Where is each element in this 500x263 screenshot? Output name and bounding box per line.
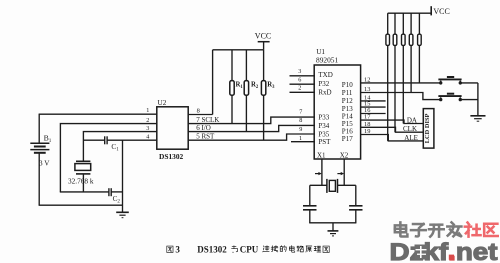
svg-text:VCC: VCC xyxy=(433,7,449,16)
svg-text:7: 7 xyxy=(299,109,302,116)
U2 pin 2 number xyxy=(146,117,149,124)
svg-text:P17: P17 xyxy=(342,135,353,143)
CPU serial stub P32 pin 6 xyxy=(290,77,316,85)
svg-text:DS1302: DS1302 xyxy=(159,152,184,161)
ground G2 xyxy=(470,116,485,121)
watermark hanzi 发-pos3 xyxy=(447,222,461,236)
CPU pin 17 number xyxy=(364,114,371,121)
wire pin16 stub xyxy=(361,113,386,115)
ground G1 xyxy=(116,212,129,217)
svg-text:3: 3 xyxy=(146,125,149,132)
capacitor C2 label xyxy=(113,195,121,205)
wire P11 pin13 to switch S2 xyxy=(361,93,441,100)
U2 pin 8 number xyxy=(197,108,200,115)
svg-text:P33: P33 xyxy=(318,114,329,122)
caption hanzi 6 xyxy=(314,246,321,252)
svg-text:X1: X1 xyxy=(317,152,326,160)
svg-text:9: 9 xyxy=(299,126,302,133)
resistor R2 label xyxy=(251,81,259,90)
caption hanzi 4 xyxy=(297,246,304,252)
net label DA xyxy=(407,116,417,124)
svg-text:LCD DISP: LCD DISP xyxy=(424,113,431,143)
wire caps to ground rail xyxy=(309,210,356,223)
wire I/O U2 pin6 to CPU P34 xyxy=(188,125,315,131)
IC U1 892051 body xyxy=(314,65,360,159)
svg-text:CLK: CLK xyxy=(403,125,417,133)
U2 pin 3 number xyxy=(146,125,149,132)
pull-up resistor RP1 xyxy=(386,13,390,141)
svg-text:TXD: TXD xyxy=(318,71,332,79)
U1 label P32 xyxy=(318,80,329,88)
crystal X1-X2 xyxy=(327,179,338,193)
caption hanzi yu(with) xyxy=(232,246,238,252)
svg-text:5 RST: 5 RST xyxy=(196,132,215,140)
VCC supply symbol center xyxy=(255,31,271,49)
svg-text:U2: U2 xyxy=(158,99,167,107)
caption figure number 3 xyxy=(175,245,180,255)
svg-text:P35: P35 xyxy=(318,130,329,138)
U2 pin 1 number xyxy=(146,107,149,114)
wire P10 pin12 to switch S1 xyxy=(361,82,441,84)
watermark hanzi 电-pos0 xyxy=(395,222,408,236)
pull-up resistor RP5 xyxy=(418,13,422,83)
U1 label P10 xyxy=(342,81,353,89)
pull-up resistor RP2 xyxy=(393,13,397,132)
IC U1 name 892051 xyxy=(316,56,338,65)
CPU pin 14 number xyxy=(364,94,371,101)
CPU pin 12 number xyxy=(364,76,370,83)
svg-text:892051: 892051 xyxy=(316,56,338,65)
wire SCLK U2 pin7 to CPU P33 xyxy=(188,117,315,124)
crystal Y1 32.768k xyxy=(75,161,91,192)
U2 name DS1302 xyxy=(159,152,184,161)
U1 label P11 xyxy=(342,89,353,97)
switch S1 right lead xyxy=(460,82,478,84)
watermark hanzi 子-pos1 xyxy=(411,224,426,236)
U1 label X1 xyxy=(317,152,326,160)
watermark glitch block xyxy=(415,245,428,260)
U1 label PST xyxy=(318,138,331,146)
U1 label TXD xyxy=(318,71,332,79)
U1 label P13 xyxy=(342,105,353,113)
caption hanzi 2 xyxy=(280,246,286,252)
svg-text:6: 6 xyxy=(298,77,301,84)
svg-text:3: 3 xyxy=(175,245,180,255)
wire U2 pin3 to crystal top xyxy=(83,132,157,162)
capacitor C1 label xyxy=(111,143,119,153)
pull-up resistor RP4 xyxy=(409,13,413,92)
CPU serial stub RxD pin 2 xyxy=(290,85,316,93)
switch ground wire xyxy=(477,83,479,116)
U1 label P34 xyxy=(318,122,329,130)
CPU pin 19 number xyxy=(364,128,370,135)
switch S2 right lead xyxy=(460,99,478,101)
CPU pin 7 number xyxy=(299,109,302,116)
caption hanzi 0 xyxy=(263,246,269,252)
svg-text:6 I/O: 6 I/O xyxy=(196,124,211,132)
svg-text:CPU: CPU xyxy=(240,245,259,255)
svg-text:P12: P12 xyxy=(342,97,353,105)
capacitor CL2 xyxy=(349,206,362,210)
CPU pin 18 number xyxy=(364,121,370,128)
wire DA pin17 to LCD xyxy=(361,120,423,123)
U2 pin 7 SCLK label xyxy=(196,116,219,124)
battery B1 negative wire to ground node xyxy=(39,153,123,205)
U1 label RxD xyxy=(318,88,331,96)
CPU pin 8 number xyxy=(299,117,302,124)
resistor R1 label xyxy=(236,81,244,90)
svg-text:PST: PST xyxy=(318,138,331,146)
svg-text:DA: DA xyxy=(407,116,417,124)
wire crystal right xyxy=(338,185,356,205)
svg-text:P11: P11 xyxy=(342,89,353,97)
svg-text:4: 4 xyxy=(146,133,149,140)
U1 label P17 xyxy=(342,135,353,143)
capacitor C1 on U2 pin4 line xyxy=(83,136,157,144)
battery B1 positive wire to U2 pin 1 xyxy=(39,114,157,143)
svg-text:32.768 k: 32.768 k xyxy=(68,177,94,186)
resistor R2 xyxy=(244,50,248,132)
svg-text:RxD: RxD xyxy=(318,88,331,96)
switch S1 xyxy=(438,77,462,85)
svg-text:1: 1 xyxy=(146,107,149,114)
switch S2 xyxy=(438,94,462,102)
battery B1 xyxy=(30,143,49,153)
crystal value 32.768 k xyxy=(68,177,94,186)
op-amp U2 designator xyxy=(158,99,167,107)
svg-text:P10: P10 xyxy=(342,81,353,89)
pull-up VCC rail xyxy=(388,12,432,14)
caption hanzi 3 xyxy=(289,246,294,253)
U2 pin 8 wire to VCC rail xyxy=(188,50,212,115)
CPU pin 13 number xyxy=(364,86,370,93)
svg-text:7 SCLK: 7 SCLK xyxy=(196,116,219,124)
LCD DISP rotated label xyxy=(424,113,431,143)
U1 label P15 xyxy=(342,120,353,128)
capacitor C2 xyxy=(109,188,123,196)
CPU pin 16 number xyxy=(364,107,370,114)
caption hanzi tu(figure) xyxy=(167,246,173,252)
svg-text:P34: P34 xyxy=(318,122,329,130)
watermark hanzi red 区 xyxy=(484,224,498,236)
net label ALE xyxy=(404,134,418,142)
wire CPU PST pin 1 stub xyxy=(291,141,315,143)
wire ALE pin19 to LCD xyxy=(361,135,423,141)
U1 label X2 xyxy=(340,152,349,160)
caption CPU xyxy=(240,245,259,255)
svg-text:8: 8 xyxy=(197,108,200,115)
wire CLK pin18 to LCD xyxy=(361,127,423,132)
pull-up resistor RP3 xyxy=(402,13,406,123)
capacitor CL1 xyxy=(303,206,317,210)
watermark hanzi red 社 xyxy=(465,223,481,237)
caption DS1302 xyxy=(197,245,227,255)
U1 label P35 xyxy=(318,130,329,138)
IC U1 designator xyxy=(316,48,325,56)
svg-text:ALE: ALE xyxy=(404,134,418,142)
watermark Dzkf.net xyxy=(390,239,498,263)
U2 pin 5 RST label xyxy=(196,132,215,140)
ground vertical wire from pin4 line xyxy=(122,140,124,212)
svg-text:2: 2 xyxy=(298,85,301,92)
U2 pin 6 I/O label xyxy=(196,124,211,132)
net label CLK xyxy=(403,125,417,133)
CPU pin 9 number xyxy=(299,126,302,133)
X1 arrow xyxy=(315,172,322,175)
U1 label P14 xyxy=(342,113,353,121)
wire X1 pin down xyxy=(321,159,323,185)
caption hanzi 5 xyxy=(306,246,312,252)
wire U2 pin2 to crystal bottom node xyxy=(60,124,157,192)
IC U2 DS1302 body xyxy=(157,107,188,149)
watermark hanzi 开-pos2 xyxy=(429,225,444,237)
U1 label P33 xyxy=(318,114,329,122)
wire rail to ground xyxy=(332,223,334,231)
svg-text:VCC: VCC xyxy=(255,31,271,40)
LCD display module box xyxy=(423,109,434,149)
VCC supply symbol right xyxy=(431,6,450,16)
X2 arrow xyxy=(337,172,344,175)
wire X2 pin down xyxy=(343,159,345,185)
svg-text:Dzkf.net: Dzkf.net xyxy=(390,239,498,263)
wire RST U2 pin5 to CPU P35 xyxy=(188,134,315,140)
resistor R3 label xyxy=(267,81,275,90)
resistor R3 xyxy=(261,50,265,140)
VCC rail xyxy=(213,49,264,51)
ground G3 xyxy=(328,231,339,236)
svg-text:3 V: 3 V xyxy=(39,159,50,167)
svg-text:P32: P32 xyxy=(318,80,329,88)
caption hanzi 1 xyxy=(271,246,278,252)
CPU serial stub TXD pin 3 xyxy=(290,68,316,76)
CPU pin 1 number xyxy=(299,135,302,142)
resistor R1 xyxy=(230,50,234,124)
svg-text:2: 2 xyxy=(146,117,149,124)
U1 label P16 xyxy=(342,128,353,136)
wire pin14 stub xyxy=(361,100,386,102)
wire crystal left xyxy=(310,185,327,205)
caption hanzi 7 xyxy=(323,246,329,252)
svg-text:DS1302: DS1302 xyxy=(197,245,227,255)
svg-text:X2: X2 xyxy=(340,152,349,160)
svg-text:1: 1 xyxy=(299,135,302,142)
U1 label P12 xyxy=(342,97,353,105)
svg-text:P13: P13 xyxy=(342,105,353,113)
CPU pin 15 number xyxy=(364,101,370,108)
svg-text:3: 3 xyxy=(298,68,301,75)
svg-text:8: 8 xyxy=(299,117,302,124)
watermark red dot xyxy=(449,255,454,260)
battery B1 label xyxy=(44,134,52,145)
wire pin15 stub xyxy=(361,106,386,108)
U2 pin 4 number xyxy=(146,133,149,140)
battery B1 value 3 V xyxy=(39,159,50,167)
